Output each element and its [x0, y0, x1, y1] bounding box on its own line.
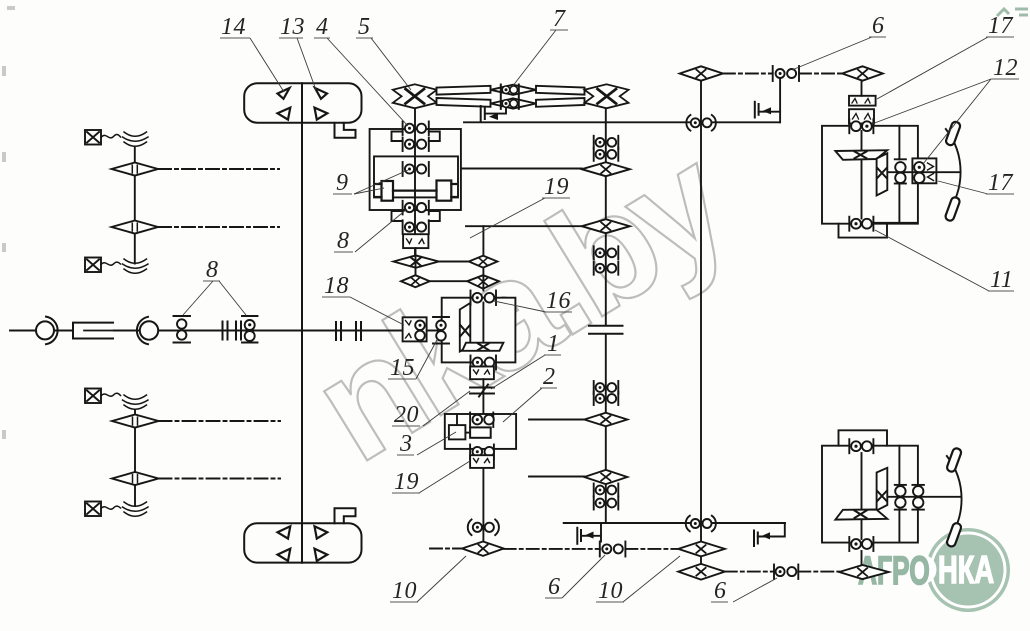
label 8 center [334, 228, 353, 254]
gear pair final-b bottom [849, 537, 873, 551]
leader 16 [494, 301, 546, 312]
gear pair column H2 [594, 497, 619, 510]
stub line to diamond F [529, 419, 584, 421]
svg-text:10: 10 [598, 578, 623, 604]
clutch star coupling right [585, 84, 629, 108]
label 13 [279, 14, 305, 40]
fork bracket clutch upper [392, 132, 440, 142]
leader 18 [350, 297, 404, 325]
mesh diamond row1 left [394, 255, 439, 267]
halfshaft dash-dot lower 1 [159, 420, 281, 422]
mesh diamond row2 left [401, 275, 430, 287]
brake elbow bottom right [758, 523, 785, 537]
pinion box below top-right [839, 224, 888, 238]
bevel diamond column B [582, 162, 630, 176]
plate link bar [393, 190, 437, 192]
coupling mid 701 [686, 115, 716, 131]
leader 6 top [792, 37, 872, 70]
rear tyre bottom segment b [946, 522, 962, 547]
cross line to diamond B [462, 168, 582, 170]
label 17 mid [986, 170, 1014, 196]
fork bracket clutch lower [392, 211, 440, 221]
label 1 [544, 331, 561, 357]
shaft front-left upper vertical [134, 147, 136, 264]
engine input shaft horizontal [10, 330, 462, 332]
tyre tread arrow bBL [278, 549, 291, 561]
range shaft vertical [482, 303, 484, 344]
stub line to diamond G [529, 476, 584, 478]
svg-text:15: 15 [390, 355, 415, 381]
brake band top right [755, 102, 759, 118]
gear pair pto top [470, 413, 494, 428]
label 10 left [390, 578, 418, 604]
rear tyre top segment a [945, 121, 961, 146]
gear pair column H1 [594, 484, 619, 497]
clutch housing box [370, 129, 461, 210]
svg-text:1: 1 [547, 331, 560, 357]
gear pair range top [471, 291, 497, 306]
leader 3 [417, 432, 456, 455]
dog clutch pto [470, 385, 494, 397]
synchro box pto [470, 455, 494, 468]
riser from reduction to brake line [485, 108, 506, 114]
leader 7 [512, 30, 556, 87]
rear tyre bottom segment a [946, 447, 962, 472]
leader 8 center [355, 209, 407, 252]
gear pair clutch 3 [403, 162, 429, 176]
clutch inner box [374, 156, 458, 197]
pressure plate left [375, 181, 393, 201]
rear pto coupling top [773, 66, 799, 81]
pto dash-dot stub left [430, 548, 462, 550]
label 6 bottom-left [545, 574, 562, 600]
reduction gear circles [502, 86, 517, 107]
leader 4 [327, 38, 408, 126]
dash-dot rear chain 2 [798, 571, 839, 573]
gear pair final-b top [849, 439, 873, 453]
svg-text:19: 19 [544, 174, 569, 200]
gear pair clutch 4 [403, 201, 429, 215]
final-b shaft to diamond [861, 551, 863, 565]
dash-dot rear chain 1 [725, 571, 774, 573]
leader 2 [503, 388, 542, 422]
svg-text:20: 20 [394, 402, 419, 428]
gear pair on input shaft B [242, 316, 258, 343]
tyre tread arrow BL [278, 108, 291, 120]
svg-text:18: 18 [324, 273, 349, 299]
reduction diamond upper [491, 85, 536, 95]
sliding coupling sleeve [73, 323, 113, 339]
halfshaft dash-dot upper 2 [158, 226, 279, 228]
front tyre top [244, 83, 361, 122]
svg-text:14: 14 [221, 14, 246, 40]
gear pair below range box [471, 356, 497, 370]
label 16 [544, 288, 572, 314]
pressure plate right [437, 181, 458, 201]
logo agronka disc [858, 528, 1010, 612]
label 2 [540, 364, 557, 390]
label 11 [988, 267, 1014, 293]
leader 12 b [923, 79, 991, 164]
label 20 [392, 402, 420, 428]
label 9 [333, 170, 352, 196]
pto bevel diamond [462, 542, 504, 556]
final drive shaft 862 top [861, 81, 863, 96]
freewheel box top-right 1 [849, 96, 876, 106]
gearbox output shaft vertical lower [605, 334, 607, 523]
label 19 bottom [392, 469, 420, 495]
bevel diamond bottom right [839, 565, 889, 579]
label 10 right [596, 578, 624, 604]
pto line long [464, 121, 780, 123]
coupling on creeper line [686, 516, 716, 532]
reduction gear bars [501, 85, 519, 109]
leader 9 a [354, 170, 408, 194]
wheel gear stack top col1 [895, 159, 906, 183]
wheel gear stack bottom col1 [895, 485, 906, 510]
coupling rear chain [774, 565, 798, 580]
leader 17 top [877, 37, 988, 99]
leader 17 mid [938, 181, 988, 194]
svg-text:16: 16 [546, 288, 571, 314]
tyre tread arrow bTL [278, 526, 291, 538]
svg-text:12: 12 [993, 55, 1018, 81]
label 3 [397, 431, 414, 457]
leader 10 right [623, 556, 680, 602]
synchro box clutch [403, 234, 428, 248]
mesh diamond row1 right [469, 256, 498, 268]
rear tyre top rim arc [946, 129, 961, 215]
gauge box with X upper-bottom [85, 258, 101, 273]
bevel diamond column C [582, 219, 630, 233]
svg-text:10: 10 [392, 578, 417, 604]
planet lever horizontal bottom [835, 510, 887, 520]
svg-text:8: 8 [337, 228, 350, 254]
bevel gear front lower 2 [112, 472, 159, 485]
dash-dot pto chain 1 [504, 548, 600, 550]
planet lever horizontal top [835, 150, 887, 160]
front axle upper: gauge box with X [85, 130, 101, 145]
label 17 top [986, 13, 1014, 39]
u-joint ticks group 1 [223, 322, 242, 340]
drive bar upper-left [437, 86, 491, 95]
leader 6 bottom-left [562, 555, 605, 598]
gear pair clutch 1 [403, 122, 429, 136]
planet lever vertical bottom [877, 468, 888, 511]
pto coupling bottom [468, 520, 499, 536]
diff lock box top [912, 158, 936, 183]
u-joint ticks group 2 [336, 322, 361, 340]
rear pto diamond right [842, 66, 883, 80]
leader 14 [250, 38, 284, 92]
wheel gear stack bottom col2 [912, 485, 924, 510]
svg-text:11: 11 [990, 267, 1013, 293]
leader 6 bottom-right [733, 578, 777, 602]
idler shaft between rows [482, 268, 484, 291]
final drive shaft 862 mid [861, 131, 863, 219]
pto shaft upper vertical [482, 379, 484, 414]
bevel gear front upper 2 [112, 221, 159, 234]
svg-text:6: 6 [714, 578, 727, 604]
front tyre bottom [244, 523, 361, 562]
label 14 [220, 14, 250, 40]
creeper line bottom [564, 522, 785, 524]
riser to top brake [779, 78, 781, 122]
main axle vertical through tyres [301, 83, 303, 562]
gear pair on input shaft A [174, 316, 191, 343]
planet lever vertical top [877, 153, 888, 195]
final drive housing top-right [822, 126, 918, 224]
intermediate shaft vertical 701 [700, 81, 702, 542]
leader 8 left a [183, 281, 213, 315]
drive bar upper-right [536, 86, 585, 95]
label 6 bottom-right [711, 578, 728, 604]
clutch shaft vertical [414, 108, 416, 256]
flexible link squiggle lower-bottom [101, 502, 148, 516]
leader 10 left [417, 556, 466, 602]
wheel axle bottom right [888, 496, 960, 498]
svg-text:13: 13 [280, 14, 305, 40]
gear pair final top [849, 119, 873, 133]
halfshaft dash-dot lower 2 [159, 478, 281, 480]
label 15 [388, 355, 416, 381]
svg-text:2: 2 [543, 364, 556, 390]
pinion box above bottom-right [839, 430, 888, 445]
gear pair column A1 [594, 136, 619, 149]
cone lever horizontal [462, 343, 503, 351]
shaft front-left lower vertical [134, 410, 136, 506]
elastic coupling right [137, 317, 158, 344]
bevel diamond mid bottom 1 [678, 542, 725, 557]
range box housing [442, 298, 516, 363]
brake band upper [481, 106, 485, 122]
leader 20 [423, 391, 470, 426]
slip joint column [589, 326, 623, 334]
gear pair clutch 5 [403, 220, 429, 234]
gear pair before range box [433, 317, 449, 344]
freewheel box top-right 2 [849, 109, 874, 123]
cross line to diamond C [466, 225, 582, 227]
cone lever vertical [460, 303, 471, 352]
rear pto dash-dot 2 [799, 73, 842, 75]
dash-dot pto chain 2 [625, 548, 678, 550]
bevel gear front lower 1 [112, 415, 159, 428]
inner support lines top-right [898, 126, 900, 223]
leader 13 [297, 38, 316, 90]
leader 19 bottom [419, 461, 470, 493]
tyre tread arrow TR [315, 88, 327, 99]
bevel diamond mid bottom 2 [678, 564, 725, 580]
brake elbow top right [759, 111, 781, 113]
gear pair column E2 [594, 392, 619, 405]
label 5 [356, 14, 373, 40]
pto inner block left [449, 414, 466, 439]
rear pto diamond left [680, 66, 723, 80]
logo corner mark top-right [997, 9, 1028, 16]
pto inner block right [465, 427, 490, 437]
gear pair in synchro box [415, 321, 425, 341]
mesh link row2 [430, 280, 468, 282]
shaft between mid diamonds [700, 556, 702, 564]
inner support lines bottom-right [898, 446, 900, 543]
leader 5 [371, 38, 411, 90]
gear pair clutch 2 [403, 138, 429, 152]
watermark nka.by [285, 114, 756, 494]
label 8 left [203, 257, 220, 283]
brake arrow bottom left [585, 532, 594, 539]
gearbox output shaft vertical upper [605, 108, 607, 325]
label 7 [550, 6, 568, 32]
gear pair pto bottom [470, 445, 494, 460]
label 18 [322, 273, 350, 299]
rear tyre bottom rim arc [947, 456, 962, 542]
elastic coupling left [36, 317, 58, 345]
svg-text:9: 9 [336, 170, 349, 196]
drive bar lower-right [536, 98, 585, 107]
tyre tread arrow bBR [315, 549, 328, 561]
label 4 [314, 14, 330, 40]
front axle lower: gauge box with X [85, 389, 101, 404]
flexible link squiggle lower-top [101, 393, 148, 409]
wheel axle top right [888, 171, 959, 173]
rear tyre top segment b [944, 196, 960, 221]
drive bar lower-left [437, 98, 491, 107]
brake band bottom right [754, 531, 758, 547]
leader 9 b [354, 188, 384, 194]
leader 11 [875, 230, 989, 291]
brake arrow top right [763, 107, 772, 114]
svg-text:19: 19 [394, 469, 419, 495]
gauge box with X lower-bottom [85, 502, 101, 517]
gear pair column D2 [594, 262, 619, 275]
tyre bottom bracket [335, 508, 356, 523]
gear pair column D1 [594, 246, 619, 259]
brake band bottom left [577, 528, 581, 544]
gear pair column A2 [594, 148, 619, 161]
svg-text:4: 4 [316, 14, 329, 40]
gear pair column E1 [594, 381, 619, 394]
halfshaft dash-dot upper 1 [158, 168, 279, 170]
mesh shaft left between [415, 248, 417, 275]
brake arrow upper [489, 113, 498, 120]
svg-text:6: 6 [548, 574, 561, 600]
flexible link squiggle upper-top [101, 132, 148, 146]
svg-text:17: 17 [988, 13, 1014, 39]
leader 19 top [470, 198, 545, 238]
brake elbow bottom left [581, 523, 601, 542]
synchro box input shaft [403, 317, 427, 341]
gear pair final bottom [849, 217, 873, 231]
leader 1 [491, 355, 545, 389]
mesh link row1 [439, 261, 469, 263]
mesh diamond row2 right [467, 275, 499, 289]
pto gearbox housing [445, 414, 516, 449]
final-b shaft vertical [861, 453, 863, 539]
brake arrow bottom right [762, 532, 771, 539]
label 6 top [869, 13, 886, 39]
bevel diamond column G [584, 470, 627, 484]
bevel diamond column F [584, 413, 627, 427]
clutch star coupling left [393, 84, 437, 108]
svg-text:НКА: НКА [938, 549, 994, 592]
bevel gear front upper 1 [112, 163, 159, 176]
idler shaft vertical segment [482, 226, 484, 255]
tyre tread arrow TL [278, 88, 290, 99]
label 19 top [542, 174, 570, 200]
pto shaft lower vertical [482, 468, 484, 542]
tyre tread arrow bTR [315, 526, 328, 538]
leader 15 [416, 338, 438, 379]
rear pto dash-dot 1 [723, 73, 773, 75]
leader 8 left b [219, 281, 246, 315]
coupling pto chain left [600, 542, 626, 557]
svg-text:7: 7 [553, 6, 566, 32]
synchro box below range [470, 367, 494, 380]
tyre tread arrow BR [315, 108, 328, 120]
label 12 [991, 55, 1019, 81]
final drive housing bottom-right [822, 446, 918, 543]
svg-text:8: 8 [206, 257, 219, 283]
svg-text:5: 5 [358, 14, 371, 40]
flexible link squiggle upper-bottom [101, 259, 148, 273]
svg-text:17: 17 [988, 170, 1014, 196]
svg-text:6: 6 [872, 13, 885, 39]
svg-text:3: 3 [399, 431, 413, 457]
leader 12 a [872, 79, 991, 124]
tyre top bracket [335, 123, 356, 138]
scan artifacts left edge [2, 6, 15, 439]
reduction diamond lower [491, 98, 536, 108]
